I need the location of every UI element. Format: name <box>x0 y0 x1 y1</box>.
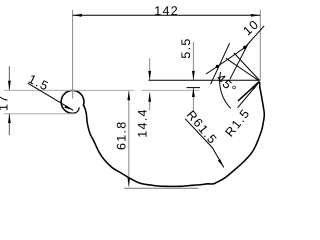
dimension line 142 <box>73 14 261 16</box>
extension line bead-bottom y=113.7 <box>4 113 75 115</box>
extension line left (x=72.6) <box>72 10 74 99</box>
leader 1.5 <box>28 83 74 110</box>
svg-text:142: 142 <box>154 4 179 18</box>
gutter profile outline <box>61 82 264 186</box>
dimension line 14.4 (x=149.7) <box>149 58 151 80</box>
R61.5 leader <box>185 119 224 168</box>
arrow up tip 14.4 bottom <box>148 92 151 101</box>
arrow left of 142 <box>73 14 82 17</box>
R1.5 leader <box>238 82 260 108</box>
svg-text:5.5: 5.5 <box>179 37 193 58</box>
dimension line 61.8 (x=128.8) <box>128 91 130 187</box>
dimension 17 lower segment <box>8 114 10 135</box>
extension line P2 <box>230 44 248 79</box>
10 dimension line (slanted with dots) <box>206 26 264 74</box>
bead inner curl hook <box>75 108 79 113</box>
dot 2 on 10-dim <box>243 46 246 49</box>
R1.5 bend at tip and 45 deg flap <box>238 82 259 101</box>
svg-text:17: 17 <box>0 94 11 111</box>
gutter wall and bowl arc <box>84 88 265 187</box>
angle dimension arc <box>220 72 231 108</box>
arrow up tip 17 bottom <box>8 114 11 123</box>
extension line right (x=260.3) <box>259 10 261 81</box>
horizontal line T at y=80.3 (rim level) <box>149 79 260 81</box>
bottom extension line y=186.9 <box>124 187 199 189</box>
arrow down tip 5.5 top <box>192 71 195 80</box>
arrow up tip 61.8 top <box>127 91 130 100</box>
dot 1 on 10-dim <box>216 65 219 68</box>
svg-text:14.4: 14.4 <box>136 108 150 138</box>
arrow of R61.5 leader <box>218 159 224 167</box>
arrow of R1.5 leader <box>252 82 260 90</box>
stub extension for 5.5 at y=87.6 <box>187 87 201 89</box>
arrow down tip 61.8 bottom <box>127 177 130 186</box>
extension line bead-top level y=90.4 <box>4 89 134 91</box>
svg-text:61.8: 61.8 <box>115 120 129 150</box>
arrow down tip 14.4 top <box>148 71 151 80</box>
arrow up tip 5.5 bottom <box>192 88 195 97</box>
dimension 17 upper segment <box>8 66 10 90</box>
extension line P1 <box>211 43 230 84</box>
arrow right of 142 <box>251 14 260 17</box>
bead outer circle <box>61 90 84 113</box>
extension line from junction for 10-dim <box>226 58 259 80</box>
second slanted extension line into junction <box>234 53 260 80</box>
arrow of 1.5 leader <box>64 105 73 110</box>
dimension line 5.5 (x=193.4) <box>192 42 194 80</box>
arrow down tip 17 top <box>8 81 11 90</box>
